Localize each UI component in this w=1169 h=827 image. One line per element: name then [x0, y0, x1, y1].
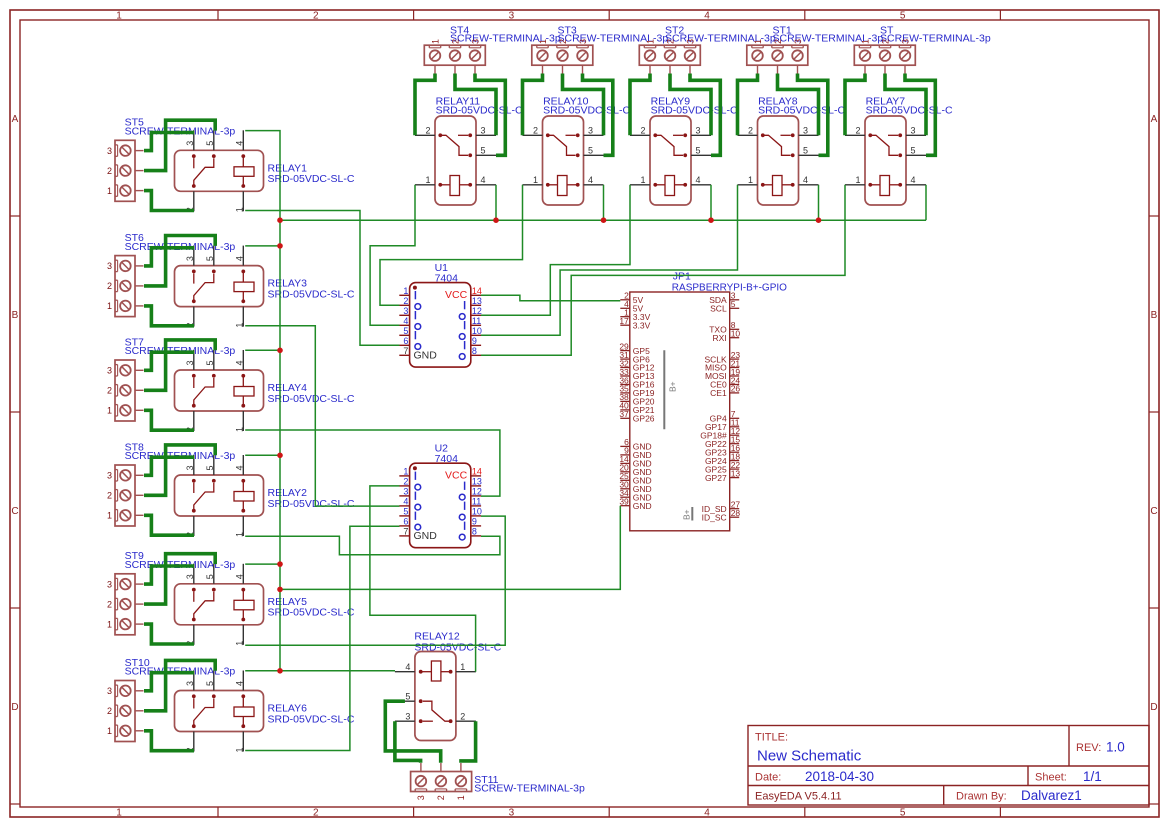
svg-text:D: D	[11, 702, 18, 713]
svg-text:2: 2	[450, 39, 460, 44]
wire ST pin3 to RELAY7 pin5	[905, 74, 935, 156]
screw terminal ST1	[747, 25, 884, 74]
svg-text:4: 4	[403, 316, 408, 326]
svg-text:7: 7	[403, 527, 408, 537]
header JP1 RASPBERRYPI-B+-GPIO	[619, 270, 787, 531]
svg-text:3: 3	[107, 261, 112, 271]
relay RELAY1 SRD-05VDC-SL-C	[175, 130, 355, 212]
screw terminal ST9	[107, 550, 235, 635]
wire ST9 pin1 to RELAY5 pin2	[144, 624, 194, 644]
svg-text:1: 1	[425, 175, 430, 185]
svg-text:1: 1	[748, 175, 753, 185]
relay RELAY11 SRD-05VDC-SL-C	[415, 96, 523, 206]
svg-text:Drawn By:: Drawn By:	[956, 791, 1007, 803]
svg-text:2: 2	[640, 125, 645, 135]
wire RELAY3 pin4 to bus	[245, 245, 280, 247]
svg-text:5: 5	[405, 691, 410, 701]
screw terminal ST5	[107, 117, 235, 202]
svg-text:2: 2	[313, 11, 319, 22]
screw terminal ST10	[107, 657, 235, 742]
svg-text:3: 3	[107, 471, 112, 481]
relay RELAY2 SRD-05VDC-SL-C	[175, 455, 355, 537]
svg-text:1: 1	[234, 747, 244, 752]
svg-text:2: 2	[107, 281, 112, 291]
svg-text:6: 6	[403, 336, 408, 346]
title block	[748, 726, 1149, 806]
wire RELAY2 pin4 to bus	[245, 454, 280, 456]
screw terminal ST3	[532, 25, 669, 74]
svg-text:4: 4	[803, 175, 808, 185]
svg-text:1.0: 1.0	[1106, 740, 1125, 755]
svg-text:3: 3	[185, 681, 195, 686]
svg-text:3: 3	[185, 465, 195, 470]
wire ST9 pin3 to RELAY5 pin3	[144, 566, 194, 584]
wire RELAY12 pin3 to ST11 pin3	[395, 721, 421, 763]
svg-text:GND: GND	[633, 501, 652, 511]
svg-text:SRD-05VDC-SL-C: SRD-05VDC-SL-C	[543, 104, 630, 116]
svg-text:2: 2	[403, 296, 408, 306]
wire ST7 pin2 to RELAY4 pin5	[144, 340, 215, 390]
svg-text:3: 3	[696, 125, 701, 135]
svg-text:SRD-05VDC-SL-C: SRD-05VDC-SL-C	[436, 104, 523, 116]
wire bus to RELAY12 pin4	[280, 670, 395, 672]
svg-text:4: 4	[704, 808, 710, 819]
svg-text:12: 12	[472, 487, 482, 497]
svg-text:1: 1	[116, 808, 122, 819]
svg-text:1: 1	[116, 11, 122, 22]
svg-text:7: 7	[403, 346, 408, 356]
svg-text:4: 4	[234, 141, 244, 146]
svg-text:1: 1	[640, 175, 645, 185]
svg-text:7404: 7404	[435, 453, 459, 465]
wire ST5 pin3 to RELAY1 pin3	[144, 133, 194, 151]
wire ST5 pin1 to RELAY1 pin2	[144, 191, 194, 211]
svg-text:5: 5	[403, 507, 408, 517]
wire RELAY12 pin5 to ST11 pin2	[385, 701, 440, 763]
svg-text:7404: 7404	[435, 272, 459, 284]
wire U1 pin14 to JP1 pin2 5V	[481, 295, 620, 301]
IC U1 7404 hex inverter	[399, 262, 482, 367]
svg-text:Dalvarez1: Dalvarez1	[1021, 788, 1082, 803]
svg-text:14: 14	[472, 286, 482, 296]
svg-text:2: 2	[107, 491, 112, 501]
wire net bus RELAY1 pin4 down left column	[245, 131, 280, 671]
svg-text:1: 1	[430, 39, 440, 44]
wire RELAY1 pin1 to U1 pin6	[245, 211, 399, 346]
svg-text:C: C	[11, 506, 18, 517]
svg-text:5: 5	[205, 574, 215, 579]
wire ST8 pin2 to RELAY2 pin5	[144, 445, 215, 495]
svg-text:13: 13	[731, 468, 741, 478]
svg-text:4: 4	[403, 497, 408, 507]
svg-text:4: 4	[234, 360, 244, 365]
svg-text:2: 2	[533, 125, 538, 135]
svg-text:1: 1	[538, 39, 548, 44]
wire ST pin1 to RELAY7 pin2	[845, 74, 865, 136]
svg-text:3: 3	[185, 574, 195, 579]
svg-text:B+: B+	[668, 381, 678, 392]
svg-text:3: 3	[588, 125, 593, 135]
svg-text:1: 1	[107, 301, 112, 311]
screw terminal ST11	[411, 763, 585, 800]
relay RELAY7 SRD-05VDC-SL-C	[845, 96, 953, 206]
svg-text:3: 3	[185, 141, 195, 146]
svg-text:C: C	[1150, 506, 1157, 517]
svg-text:1: 1	[460, 662, 465, 672]
svg-text:28: 28	[731, 508, 741, 518]
svg-text:11: 11	[472, 316, 481, 326]
svg-text:3: 3	[107, 146, 112, 156]
svg-text:3: 3	[416, 795, 426, 800]
svg-text:3: 3	[481, 125, 486, 135]
svg-text:2: 2	[107, 706, 112, 716]
wire RELAY4 pin1 to U2 pin12	[245, 430, 500, 496]
svg-text:RXI: RXI	[713, 333, 727, 343]
wire ST1 pin2 to RELAY8 pin3	[778, 74, 819, 136]
svg-text:2: 2	[748, 125, 753, 135]
svg-text:2: 2	[855, 125, 860, 135]
svg-text:1: 1	[107, 511, 112, 521]
wire ST8 pin3 to RELAY2 pin3	[144, 457, 194, 475]
wire ST10 pin3 to RELAY6 pin3	[144, 673, 194, 691]
svg-text:2: 2	[107, 386, 112, 396]
svg-text:10: 10	[731, 329, 741, 339]
svg-text:3: 3	[685, 39, 695, 44]
wire top relay pin4 drop at x=711	[710, 185, 712, 220]
wire ST4 pin1 to RELAY11 pin2	[415, 74, 435, 136]
wire ST9 pin2 to RELAY5 pin5	[144, 554, 215, 604]
screw terminal ST6	[107, 232, 235, 317]
wire ST1 pin1 to RELAY8 pin2	[738, 74, 758, 136]
svg-text:Sheet:: Sheet:	[1035, 772, 1067, 784]
svg-text:GP26: GP26	[633, 414, 655, 424]
svg-text:3: 3	[509, 808, 515, 819]
svg-text:3: 3	[185, 360, 195, 365]
wire RELAY6 pin4 to bus	[245, 670, 280, 672]
svg-text:1: 1	[107, 726, 112, 736]
svg-text:5: 5	[481, 145, 486, 155]
svg-text:6: 6	[403, 517, 408, 527]
svg-text:1: 1	[533, 175, 538, 185]
wire net rail to top relay coils	[280, 219, 926, 221]
svg-text:SCL: SCL	[710, 304, 727, 314]
svg-text:3: 3	[803, 125, 808, 135]
svg-text:1: 1	[234, 532, 244, 537]
svg-text:9: 9	[472, 336, 477, 346]
svg-text:TITLE:: TITLE:	[755, 732, 788, 744]
wire ST4 pin3 to RELAY11 pin5	[475, 74, 505, 156]
wire top relay pin4 drop at x=603.5	[603, 185, 605, 220]
relay RELAY9 SRD-05VDC-SL-C	[630, 96, 738, 206]
wire RELAY10 pin1 to U1 pin2	[380, 185, 523, 305]
svg-text:13: 13	[472, 296, 482, 306]
svg-text:1: 1	[234, 207, 244, 212]
wire RELAY9 pin1 to U1 pin12	[481, 185, 630, 315]
svg-text:4: 4	[234, 681, 244, 686]
svg-text:17: 17	[619, 316, 629, 326]
svg-text:4: 4	[234, 574, 244, 579]
wire RELAY4 pin4 to bus	[245, 349, 280, 351]
wire ST10 pin2 to RELAY6 pin5	[144, 660, 215, 710]
svg-text:B: B	[1151, 310, 1158, 321]
svg-text:3: 3	[403, 306, 408, 316]
svg-text:10: 10	[472, 507, 482, 517]
wire U2 pin2 to RELAY12 pin1	[370, 486, 476, 672]
wire ST3 pin2 to RELAY10 pin3	[563, 74, 604, 136]
svg-text:2: 2	[460, 711, 465, 721]
svg-text:2: 2	[880, 39, 890, 44]
wire RELAY2 pin1 to U2 pin8	[245, 536, 500, 555]
svg-text:1: 1	[753, 39, 763, 44]
svg-text:New Schematic: New Schematic	[757, 748, 862, 765]
relay RELAY5 SRD-05VDC-SL-C	[175, 564, 355, 646]
svg-text:4: 4	[234, 256, 244, 261]
wire ST4 pin2 to RELAY11 pin3	[455, 74, 496, 136]
wire ST10 pin1 to RELAY6 pin2	[144, 731, 194, 751]
wire ST6 pin2 to RELAY3 pin5	[144, 236, 215, 286]
svg-text:10: 10	[472, 326, 482, 336]
svg-text:8: 8	[472, 346, 477, 356]
wire RELAY12 pin2 to ST11 pin1	[461, 721, 476, 763]
svg-text:9: 9	[472, 517, 477, 527]
svg-text:SRD-05VDC-SL-C: SRD-05VDC-SL-C	[414, 641, 501, 653]
svg-text:2: 2	[665, 39, 675, 44]
svg-text:5: 5	[205, 360, 215, 365]
wire ST2 pin3 to RELAY9 pin5	[690, 74, 720, 156]
screw terminal ST	[854, 25, 991, 74]
svg-text:SRD-05VDC-SL-C: SRD-05VDC-SL-C	[268, 713, 355, 725]
svg-text:1: 1	[107, 186, 112, 196]
wire ST1 pin3 to RELAY8 pin5	[798, 74, 828, 156]
wire top relay pin4 drop at x=818.5	[818, 185, 820, 220]
relay RELAY6 SRD-05VDC-SL-C	[175, 671, 355, 753]
svg-text:5: 5	[205, 465, 215, 470]
svg-text:CE1: CE1	[710, 388, 727, 398]
svg-text:2: 2	[773, 39, 783, 44]
wire ST pin2 to RELAY7 pin3	[885, 74, 926, 136]
wire RELAY3 pin1 to U2 pin4	[245, 326, 399, 506]
svg-text:1: 1	[403, 467, 408, 477]
screw terminal ST2	[639, 25, 776, 74]
wire RELAY5 pin1 to U2 pin10	[245, 516, 505, 645]
svg-text:A: A	[1151, 114, 1158, 125]
wire RELAY11 pin1 to U1 pin4	[370, 185, 415, 325]
svg-text:5: 5	[803, 145, 808, 155]
svg-text:5: 5	[911, 145, 916, 155]
svg-text:13: 13	[472, 477, 482, 487]
IC U2 7404 hex inverter	[399, 443, 482, 548]
svg-text:SRD-05VDC-SL-C: SRD-05VDC-SL-C	[651, 104, 738, 116]
svg-text:1: 1	[645, 39, 655, 44]
svg-text:A: A	[12, 114, 19, 125]
svg-text:4: 4	[405, 662, 410, 672]
wire top relay pin4 drop at x=926	[925, 185, 927, 220]
wire top relay pin4 drop at x=496	[495, 185, 497, 220]
wire ST2 pin2 to RELAY9 pin3	[670, 74, 711, 136]
screw terminal ST4	[424, 25, 561, 74]
svg-text:SCREW-TERMINAL-3p: SCREW-TERMINAL-3p	[880, 33, 991, 45]
svg-text:2: 2	[107, 599, 112, 609]
svg-text:1: 1	[107, 406, 112, 416]
svg-text:3: 3	[793, 39, 803, 44]
svg-text:39: 39	[619, 497, 629, 507]
screw terminal ST8	[107, 441, 235, 526]
svg-text:4: 4	[704, 11, 710, 22]
svg-text:1: 1	[860, 39, 870, 44]
wire ST7 pin1 to RELAY4 pin2	[144, 410, 194, 430]
svg-text:2: 2	[313, 808, 319, 819]
svg-text:3: 3	[107, 686, 112, 696]
svg-text:4: 4	[481, 175, 486, 185]
screw terminal ST7	[107, 336, 235, 421]
svg-text:3: 3	[107, 579, 112, 589]
svg-text:REV:: REV:	[1076, 742, 1101, 754]
svg-text:4: 4	[588, 175, 593, 185]
svg-text:VCC: VCC	[445, 469, 468, 481]
wire ST6 pin3 to RELAY3 pin3	[144, 248, 194, 266]
wire ST3 pin1 to RELAY10 pin2	[523, 74, 543, 136]
svg-text:12: 12	[472, 306, 482, 316]
svg-text:2: 2	[425, 125, 430, 135]
svg-text:3: 3	[911, 125, 916, 135]
svg-text:SRD-05VDC-SL-C: SRD-05VDC-SL-C	[866, 104, 953, 116]
wire ST5 pin2 to RELAY1 pin5	[144, 120, 215, 170]
svg-text:RASPBERRYPI-B+-GPIO: RASPBERRYPI-B+-GPIO	[672, 282, 787, 293]
svg-text:GND: GND	[414, 350, 438, 362]
wire RELAY6 pin1 to U2 pin6	[245, 526, 399, 750]
svg-text:5: 5	[205, 681, 215, 686]
svg-text:D: D	[1150, 702, 1157, 713]
svg-text:37: 37	[619, 409, 629, 419]
svg-text:3.3V: 3.3V	[633, 320, 651, 330]
wire RELAY8 pin1 to U1 pin10	[481, 185, 738, 335]
svg-text:4: 4	[234, 465, 244, 470]
relay RELAY12 SRD-05VDC-SL-C	[395, 631, 502, 741]
svg-text:1: 1	[107, 619, 112, 629]
relay RELAY10 SRD-05VDC-SL-C	[523, 96, 631, 206]
svg-text:GND: GND	[414, 530, 438, 542]
svg-text:3: 3	[185, 256, 195, 261]
svg-text:1/1: 1/1	[1083, 769, 1102, 784]
svg-text:5: 5	[900, 808, 906, 819]
svg-text:3: 3	[405, 711, 410, 721]
svg-text:EasyEDA V5.4.11: EasyEDA V5.4.11	[755, 791, 842, 803]
svg-text:3: 3	[578, 39, 588, 44]
svg-text:SCREW-TERMINAL-3p: SCREW-TERMINAL-3p	[474, 783, 585, 795]
svg-text:3: 3	[470, 39, 480, 44]
svg-text:5: 5	[588, 145, 593, 155]
svg-text:Date:: Date:	[755, 772, 781, 784]
wire RELAY5 pin4 to bus	[245, 563, 280, 565]
wire JP1 pin39 GND to bus	[280, 506, 620, 590]
svg-text:2018-04-30: 2018-04-30	[805, 769, 874, 784]
svg-text:VCC: VCC	[445, 289, 468, 301]
svg-text:1: 1	[234, 323, 244, 328]
relay RELAY3 SRD-05VDC-SL-C	[175, 246, 355, 328]
svg-text:3: 3	[403, 487, 408, 497]
svg-text:14: 14	[472, 467, 482, 477]
svg-text:5: 5	[696, 145, 701, 155]
relay RELAY4 SRD-05VDC-SL-C	[175, 350, 355, 432]
svg-text:SRD-05VDC-SL-C: SRD-05VDC-SL-C	[758, 104, 845, 116]
svg-text:1: 1	[403, 286, 408, 296]
svg-text:5: 5	[205, 256, 215, 261]
wire ST6 pin1 to RELAY3 pin2	[144, 306, 194, 326]
svg-text:3: 3	[509, 11, 515, 22]
svg-text:2: 2	[436, 795, 446, 800]
wire ST8 pin1 to RELAY2 pin2	[144, 515, 194, 535]
svg-text:GP27: GP27	[705, 473, 727, 483]
svg-text:B: B	[12, 310, 19, 321]
svg-text:3: 3	[900, 39, 910, 44]
svg-text:2: 2	[107, 166, 112, 176]
svg-text:1: 1	[456, 795, 466, 800]
svg-text:3: 3	[107, 366, 112, 376]
svg-text:26: 26	[731, 384, 741, 394]
svg-text:JP1: JP1	[673, 270, 691, 282]
svg-text:5: 5	[403, 326, 408, 336]
svg-text:B+: B+	[682, 509, 692, 520]
svg-text:2: 2	[403, 477, 408, 487]
wire ST3 pin3 to RELAY10 pin5	[583, 74, 613, 156]
wire RELAY7 pin1 to U1 pin8	[481, 185, 845, 355]
svg-text:1: 1	[234, 641, 244, 646]
svg-text:1: 1	[234, 427, 244, 432]
svg-text:8: 8	[472, 527, 477, 537]
svg-text:2: 2	[558, 39, 568, 44]
svg-text:1: 1	[855, 175, 860, 185]
svg-text:11: 11	[472, 497, 481, 507]
svg-text:ID_SC: ID_SC	[702, 512, 727, 522]
svg-text:4: 4	[911, 175, 916, 185]
relay RELAY8 SRD-05VDC-SL-C	[738, 96, 846, 206]
wire ST2 pin1 to RELAY9 pin2	[630, 74, 650, 136]
svg-text:5: 5	[205, 141, 215, 146]
svg-text:5: 5	[731, 299, 736, 309]
svg-text:5: 5	[900, 11, 906, 22]
wire ST7 pin3 to RELAY4 pin3	[144, 352, 194, 370]
svg-text:4: 4	[696, 175, 701, 185]
